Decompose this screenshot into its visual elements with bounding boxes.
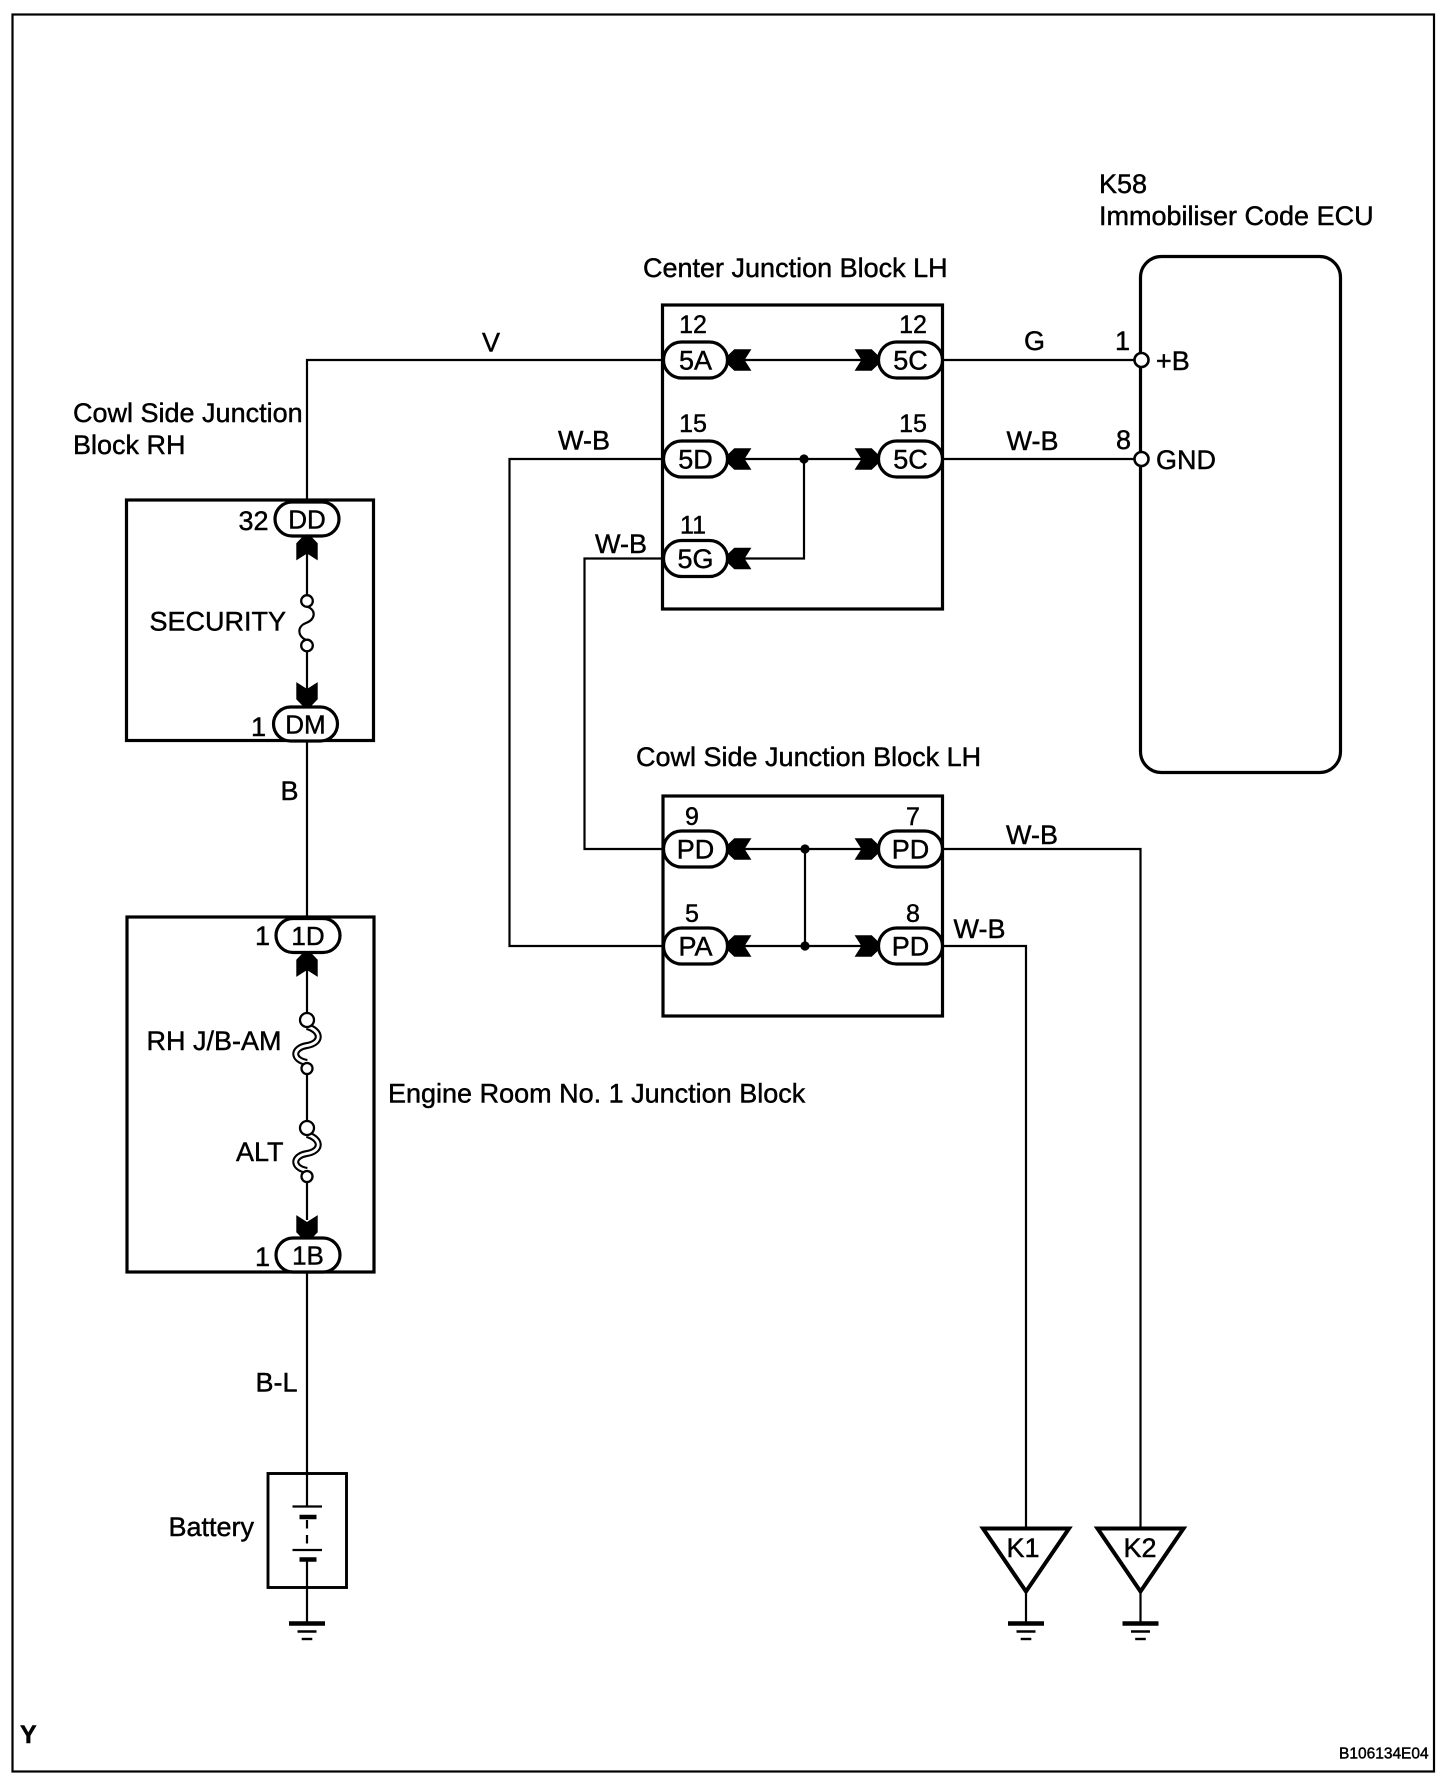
svg-text:Cowl Side Junction Block LH: Cowl Side Junction Block LH: [636, 742, 981, 772]
svg-text:K1: K1: [1006, 1533, 1039, 1563]
svg-text:1: 1: [251, 712, 266, 742]
connector DD pin 32: [275, 502, 339, 536]
svg-text:W-B: W-B: [1006, 820, 1058, 850]
wire W-B: 5G to cowl LH PD 9: [585, 559, 664, 850]
svg-text:K58: K58: [1099, 169, 1147, 199]
wire B-L: 1B to battery: [306, 1272, 308, 1507]
ECU pin 1 circle: [1135, 353, 1149, 367]
wire ALT fuse to 1B arrow: [306, 1182, 308, 1220]
junction dot (PA row): [800, 941, 809, 950]
connector 1D pin 1: [276, 919, 340, 953]
wire W-B: PD 7 to K2: [943, 849, 1141, 1528]
wire DD arrow to fuse: [306, 536, 308, 596]
arrow into 5D: [728, 449, 751, 470]
arrow into 5A: [728, 350, 751, 371]
connector 5G pin 11: [664, 541, 728, 577]
wire: center row 5D-5C: [728, 458, 879, 460]
junction block: Center Junction Block LH: [663, 305, 943, 609]
connector PD pin 8: [879, 928, 943, 964]
svg-text:Engine Room No. 1 Junction Blo: Engine Room No. 1 Junction Block: [388, 1079, 806, 1109]
connector DM pin 1: [274, 707, 338, 741]
svg-text:GND: GND: [1156, 445, 1216, 475]
wire W-B: 5D to cowl LH PA: [510, 459, 664, 946]
svg-text:12: 12: [899, 311, 927, 339]
svg-text:W-B: W-B: [954, 914, 1006, 944]
svg-text:PA: PA: [678, 932, 712, 962]
connector PD pin 7: [879, 831, 943, 867]
arrow down into 1B: [297, 1216, 317, 1239]
arrow up into 1D: [297, 953, 317, 976]
wire fuse to fuse: [306, 1074, 308, 1122]
arrow into 5C: [856, 350, 879, 371]
wire: link between junction dots: [804, 849, 806, 946]
wire battery to ground: [306, 1560, 308, 1622]
wire W-B: center 5C to ECU pin 8: [943, 458, 1135, 460]
svg-text:SECURITY: SECURITY: [150, 607, 287, 637]
svg-text:K2: K2: [1123, 1533, 1156, 1563]
junction block: Cowl Side Junction Block LH: [663, 796, 943, 1016]
junction dot (center block): [799, 454, 808, 463]
arrow down into DM: [297, 683, 317, 706]
wire B: DM to engine room 1D: [306, 741, 308, 919]
svg-text:1D: 1D: [291, 921, 324, 951]
svg-text:RH J/B-AM: RH J/B-AM: [147, 1026, 282, 1056]
connector PA pin 5: [664, 928, 728, 964]
label Cowl Side Junction Block RH: [73, 398, 303, 460]
svg-text:1B: 1B: [292, 1241, 324, 1271]
svg-text:B: B: [281, 776, 299, 806]
svg-text:B106134E04: B106134E04: [1339, 1746, 1429, 1763]
junction block: Cowl Side Junction Block RH: [127, 500, 374, 741]
wire V: cowl RH DD to center 5A: [307, 360, 664, 502]
wire G: center 5C to ECU pin 1: [943, 359, 1135, 361]
svg-text:5G: 5G: [677, 544, 713, 574]
svg-text:8: 8: [906, 900, 920, 928]
junction dot (PD row): [800, 844, 809, 853]
connector 5A pin 12: [664, 342, 728, 378]
ground connector K1: [983, 1529, 1069, 1592]
svg-text:PD: PD: [677, 835, 715, 865]
connector 1B pin 1: [276, 1238, 340, 1272]
svg-text:DD: DD: [288, 505, 326, 535]
svg-text:G: G: [1024, 326, 1045, 356]
battery box: [268, 1474, 347, 1588]
fuse SECURITY: [299, 595, 313, 651]
arrow into PD 8: [856, 936, 879, 957]
svg-text:V: V: [482, 328, 500, 358]
arrow into PD 9: [728, 839, 751, 860]
svg-text:1: 1: [255, 1242, 270, 1272]
ground (K2): [1123, 1624, 1159, 1640]
svg-text:32: 32: [238, 506, 268, 536]
wire fuse to DM arrow: [306, 651, 308, 708]
svg-text:B-L: B-L: [256, 1368, 298, 1398]
wire 1D to fuse RH J/B-AM: [306, 953, 308, 1014]
arrow into 5G: [728, 548, 751, 569]
svg-text:W-B: W-B: [558, 426, 610, 456]
fuse ALT (fusible link): [296, 1121, 319, 1182]
svg-text:5C: 5C: [893, 346, 928, 376]
wire: center row 5A-5C: [728, 359, 879, 361]
wire K2 to ground: [1139, 1591, 1141, 1622]
svg-text:15: 15: [899, 410, 927, 438]
svg-text:5A: 5A: [679, 346, 712, 376]
svg-text:Immobiliser Code ECU: Immobiliser Code ECU: [1099, 201, 1374, 231]
ground (battery): [289, 1624, 325, 1640]
svg-text:5D: 5D: [678, 445, 713, 475]
arrow into PD 7: [856, 839, 879, 860]
svg-text:PD: PD: [892, 835, 930, 865]
svg-text:9: 9: [685, 803, 699, 831]
svg-text:1: 1: [1115, 326, 1130, 356]
ground (K1): [1008, 1624, 1044, 1640]
svg-text:+B: +B: [1156, 346, 1190, 376]
svg-text:11: 11: [680, 512, 706, 540]
connector 5D pin 15: [664, 441, 728, 477]
svg-text:ALT: ALT: [236, 1137, 284, 1167]
svg-text:15: 15: [679, 410, 707, 438]
svg-text:Cowl Side Junction: Cowl Side Junction: [73, 398, 303, 428]
ECU pin 8 circle: [1135, 452, 1149, 466]
wire W-B: PD 8 to K1: [943, 946, 1027, 1528]
svg-text:Block RH: Block RH: [73, 430, 186, 460]
wire: junction to 5G: [728, 459, 805, 559]
svg-text:DM: DM: [285, 710, 325, 740]
svg-text:8: 8: [1116, 425, 1131, 455]
connector PD pin 9: [664, 831, 728, 867]
svg-text:5: 5: [685, 900, 699, 928]
wire: cowl LH row PA-PD: [728, 945, 879, 947]
svg-text:Center Junction Block LH: Center Junction Block LH: [643, 253, 948, 283]
svg-text:1: 1: [255, 921, 270, 951]
arrow into 5C lower: [856, 449, 879, 470]
arrow up into DD: [297, 537, 317, 560]
connector 5C pin 15: [879, 441, 943, 477]
wire K1 to ground: [1025, 1591, 1027, 1622]
wire: cowl LH row PD-PD: [728, 848, 879, 850]
svg-text:Y: Y: [20, 1721, 37, 1749]
fuse RH J/B-AM (fusible link): [296, 1013, 319, 1074]
junction block: Engine Room No. 1 Junction Block: [127, 917, 374, 1272]
svg-text:W-B: W-B: [595, 529, 647, 559]
arrow into PA: [728, 936, 751, 957]
svg-text:PD: PD: [892, 932, 930, 962]
svg-text:12: 12: [679, 311, 707, 339]
svg-text:5C: 5C: [893, 445, 928, 475]
battery cell symbol: [293, 1507, 323, 1560]
svg-text:7: 7: [906, 803, 920, 831]
connector 5C pin 12: [879, 342, 943, 378]
svg-text:W-B: W-B: [1007, 426, 1059, 456]
ECU K58 body: [1141, 257, 1341, 773]
svg-text:Battery: Battery: [169, 1512, 255, 1542]
ground connector K2: [1098, 1529, 1184, 1592]
